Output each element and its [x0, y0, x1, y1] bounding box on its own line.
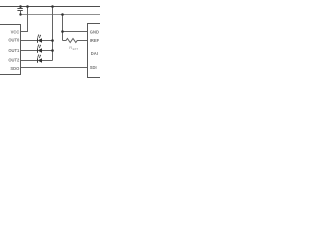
svg-text:SDO: SDO [10, 66, 20, 71]
svg-text:OUT2: OUT2 [8, 57, 20, 62]
LED D2 [38, 44, 43, 53]
svg-text:IREF: IREF [90, 38, 100, 43]
wire VCC rail (top) [0, 6, 100, 8]
IC U2 (right driver) [88, 24, 104, 78]
svg-text:VCC: VCC [11, 30, 20, 35]
junction dot bus-LED2 [51, 49, 54, 52]
capacitor C1 [17, 7, 22, 15]
wire GND rail [20, 14, 100, 16]
LED D1 [38, 34, 43, 43]
wire OUT0 to LED1 [21, 40, 38, 42]
junction dot rail2-GND riser [61, 13, 64, 16]
wire GND pin wire [63, 31, 89, 33]
svg-text:OUT1: OUT1 [8, 48, 20, 53]
svg-text:GND: GND [90, 29, 99, 34]
label REXT value [69, 45, 78, 51]
junction dot rail1-cap [19, 5, 22, 8]
wire LED anode bus [52, 7, 54, 61]
wire SDO to SDI [21, 67, 89, 69]
junction dot rail1-VCC riser [26, 5, 29, 8]
junction dot rail1-LED bus [51, 5, 54, 8]
resistor REXT [63, 39, 89, 43]
LED D3 [38, 54, 43, 63]
svg-text:EXT: EXT [73, 47, 79, 51]
svg-text:DAI: DAI [91, 51, 98, 56]
wire LED3 to bus [42, 60, 53, 62]
junction dot bus-LED1 [51, 39, 54, 42]
svg-text:SDI: SDI [90, 65, 97, 70]
wire OUT1 to LED2 [21, 50, 38, 52]
wire LED2 to bus [42, 50, 53, 52]
junction dot GND tee [61, 30, 64, 33]
IC U1 (left driver) [0, 25, 21, 75]
junction dot rail2-cap [19, 13, 21, 15]
wire LED1 to bus [42, 40, 53, 42]
wire GND riser [62, 15, 64, 41]
wire OUT2 to LED3 [21, 60, 38, 62]
wire VCC riser [21, 7, 28, 32]
svg-text:OUT0: OUT0 [8, 38, 20, 43]
